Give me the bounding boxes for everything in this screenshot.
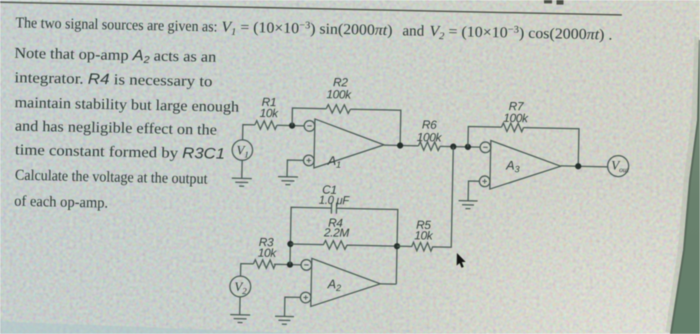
ground V2 [230,297,251,323]
wire A1 plus input to ground [287,160,303,177]
bottom teal strip [0,322,320,334]
top edge dark marks [544,0,552,3]
ground A3 plus [458,201,477,209]
resistor R6 [418,142,440,151]
ground A1 plus [278,177,298,185]
wire A2 output [380,283,396,285]
resistor R7 [501,123,523,132]
node junction A2 input [287,261,293,267]
svg-text:100k: 100k [417,130,443,145]
op-amp A3 [479,140,561,190]
node A3 output [575,163,581,169]
node R7 junction [465,144,471,150]
wire A1 output [384,144,418,147]
wire A3 output to Vout [561,165,608,168]
svg-text:10k: 10k [258,246,278,260]
svg-text:10k: 10k [260,106,280,120]
wire A2 plus input to ground [284,297,300,317]
wire R7 feedback left leg [468,127,502,148]
svg-text:2.2M: 2.2M [323,225,350,240]
resistor R5 [397,145,453,251]
wire R3 to A2 inverting input [274,263,301,266]
wire V1 to R1 [243,125,255,141]
node R5 junction [450,143,456,149]
source V2 [230,276,251,297]
wire R2 to output node [350,109,401,145]
svg-text:1.0 μF: 1.0 μF [319,193,350,208]
node R4 left junction [287,241,293,247]
svg-text:and: and [402,23,425,39]
op-amp A1 [303,119,384,171]
wire R6 to A3 inverting input [440,145,480,148]
node junction A1 input [289,122,295,128]
resistor R4 [290,240,397,251]
top rule line [0,2,622,15]
node A1 output [397,142,403,148]
ground V1 [232,160,253,186]
op-amp A2 [300,258,381,308]
wire R7 right leg to A3 output [523,128,579,167]
svg-text:100k: 100k [326,87,352,102]
screen right edge dark region [668,37,697,332]
wire C1 feedback left leg [290,207,332,265]
wire V2 to R3 [241,264,254,277]
wire R2 feedback left leg [292,108,326,126]
capacitor C1 [331,203,336,214]
wire R1 to A1 inverting input [277,124,304,127]
wire A3 plus input to ground [468,181,479,201]
resistor R3 [253,260,275,269]
node R4 right junction [394,243,400,249]
svg-text:of each op-amp.: of each op-amp. [14,194,108,212]
resistor R2 [326,104,350,113]
resistor R1 [255,121,277,130]
ground A2 plus [275,316,294,324]
svg-text:10k: 10k [414,228,434,242]
output terminal Vout [607,155,629,176]
mouse cursor [457,253,466,268]
svg-text:100k: 100k [503,111,529,126]
source V1 [232,140,253,161]
wire C1 right leg [335,208,398,284]
